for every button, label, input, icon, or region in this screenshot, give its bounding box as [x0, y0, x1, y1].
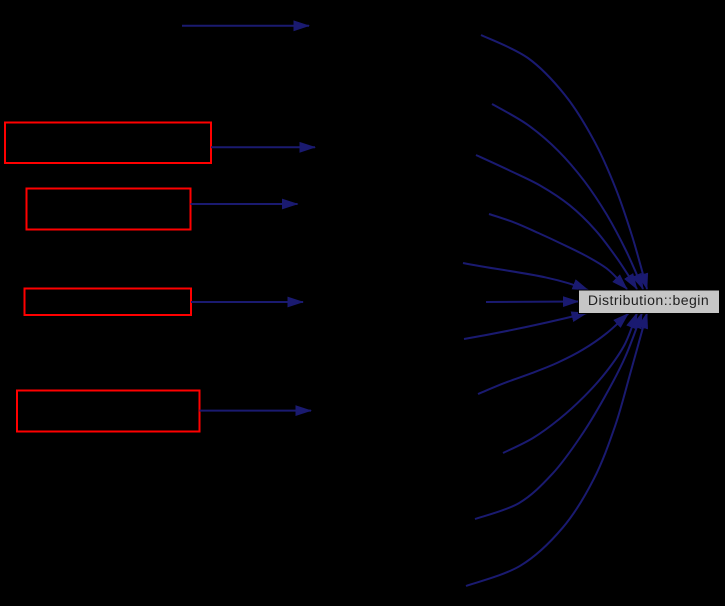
svg-text:Distribution::begin: Distribution::begin: [588, 292, 709, 308]
